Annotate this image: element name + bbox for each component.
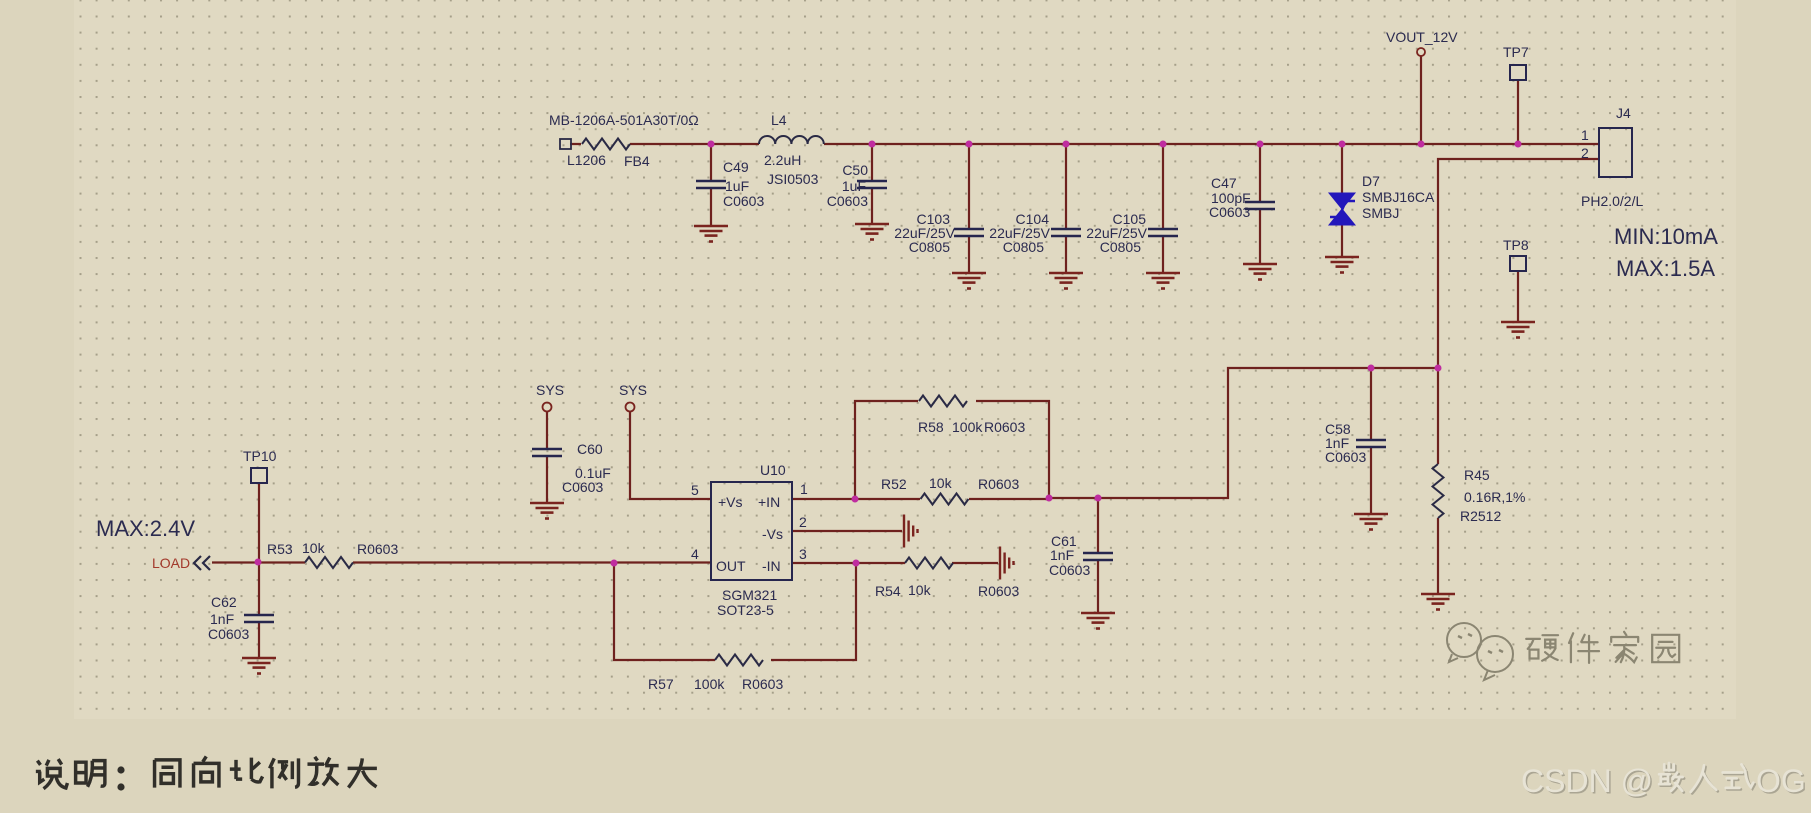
capacitor C49 bbox=[696, 159, 764, 209]
svg-text:C0805: C0805 bbox=[1100, 239, 1141, 255]
test point TP10 bbox=[243, 448, 277, 483]
svg-text:1: 1 bbox=[800, 481, 808, 497]
ground C58 bbox=[1354, 514, 1388, 530]
svg-text:5: 5 bbox=[691, 482, 699, 498]
svg-text:1nF: 1nF bbox=[210, 611, 234, 627]
resistor R53 bbox=[267, 540, 398, 568]
svg-text:MIN:10mA: MIN:10mA bbox=[1614, 224, 1718, 249]
wire top rail bbox=[570, 143, 1599, 145]
svg-text:U10: U10 bbox=[760, 462, 786, 478]
wire C47 leads bbox=[1259, 144, 1261, 264]
port LOAD bbox=[152, 555, 210, 571]
svg-text:1uF: 1uF bbox=[842, 178, 866, 194]
wire R57 loop bbox=[614, 563, 856, 660]
capacitor C50 bbox=[827, 162, 887, 209]
svg-text:PH2.0/2/L: PH2.0/2/L bbox=[1581, 193, 1643, 209]
wire C105 leads bbox=[1162, 144, 1164, 273]
svg-text:L4: L4 bbox=[771, 112, 787, 128]
wire feedback horizontal bbox=[1049, 368, 1438, 498]
wire J4 pin2 to R45 line bbox=[1438, 159, 1599, 368]
wire SYS1 to C60 bbox=[546, 411, 548, 503]
svg-text:C0603: C0603 bbox=[1049, 562, 1090, 578]
svg-text:R52: R52 bbox=[881, 476, 907, 492]
wire C61 leads bbox=[1097, 498, 1099, 613]
svg-text:FB4: FB4 bbox=[624, 153, 650, 169]
svg-text:C50: C50 bbox=[842, 162, 868, 178]
svg-text:OG: OG bbox=[1756, 763, 1806, 799]
svg-text:4: 4 bbox=[691, 546, 699, 562]
capacitor C47 bbox=[1209, 175, 1275, 220]
junction LOAD node bbox=[255, 559, 262, 566]
svg-text:R58: R58 bbox=[918, 419, 944, 435]
watermark logo bubbles bbox=[1447, 623, 1513, 680]
watermark text 硬件家园 bbox=[1526, 632, 1679, 663]
svg-text:-IN: -IN bbox=[762, 558, 781, 574]
svg-text:R0603: R0603 bbox=[984, 419, 1025, 435]
svg-text:C0603: C0603 bbox=[1325, 449, 1366, 465]
svg-text:C0603: C0603 bbox=[208, 626, 249, 642]
junction C61 node bbox=[1095, 495, 1102, 502]
svg-text:C0805: C0805 bbox=[909, 239, 950, 255]
inductor L4 bbox=[759, 112, 824, 187]
op-amp U10 bbox=[691, 462, 808, 618]
wire LOAD to OUT pin4 bbox=[212, 561, 711, 563]
svg-text:TP8: TP8 bbox=[1503, 237, 1529, 253]
svg-text:100k: 100k bbox=[952, 419, 983, 435]
capacitor C58 bbox=[1325, 421, 1386, 465]
wire C58 leads bbox=[1370, 368, 1372, 514]
svg-text:CSDN @: CSDN @ bbox=[1521, 763, 1653, 799]
svg-text:1nF: 1nF bbox=[1050, 547, 1074, 563]
svg-text:1uF: 1uF bbox=[725, 178, 749, 194]
svg-text:R57: R57 bbox=[648, 676, 674, 692]
svg-text:1: 1 bbox=[1581, 127, 1589, 143]
capacitor C104 bbox=[989, 211, 1081, 255]
wire C50 leads bbox=[871, 144, 873, 224]
ground C62 bbox=[242, 658, 276, 674]
svg-text:R0603: R0603 bbox=[742, 676, 783, 692]
wire R45 leads bbox=[1437, 368, 1439, 594]
junction R58 R52 bbox=[1046, 495, 1053, 502]
junction +IN R52 bbox=[852, 496, 859, 503]
svg-text:SOT23-5: SOT23-5 bbox=[717, 602, 774, 618]
caption colon bbox=[117, 766, 124, 790]
svg-text:LOAD: LOAD bbox=[152, 555, 190, 571]
svg-text:C0805: C0805 bbox=[1003, 239, 1044, 255]
svg-text:10k: 10k bbox=[302, 540, 326, 556]
ground C61 bbox=[1081, 613, 1115, 629]
svg-text:OUT: OUT bbox=[716, 558, 746, 574]
ground C50 bbox=[855, 224, 889, 240]
svg-text:R54: R54 bbox=[875, 583, 901, 599]
wire VOUT_12V bbox=[1420, 56, 1422, 144]
svg-text:3: 3 bbox=[799, 546, 807, 562]
wire R58 loop bbox=[855, 401, 1049, 499]
ground pin3 sideways bbox=[1000, 547, 1014, 580]
junction rail C104 bbox=[1063, 141, 1070, 148]
svg-text:TP10: TP10 bbox=[243, 448, 277, 464]
svg-text:SYS: SYS bbox=[536, 382, 564, 398]
wire TP10 bbox=[258, 483, 260, 562]
svg-text:VOUT_12V: VOUT_12V bbox=[1386, 29, 1458, 45]
svg-text:L1206: L1206 bbox=[567, 152, 606, 168]
svg-text:J4: J4 bbox=[1616, 105, 1631, 121]
junction rail C105 bbox=[1160, 141, 1167, 148]
svg-text:2.2uH: 2.2uH bbox=[764, 152, 801, 168]
ground R45 bbox=[1421, 594, 1455, 610]
wire pin3 R54 to ground bbox=[792, 562, 998, 564]
wire C49 leads bbox=[710, 144, 712, 226]
svg-text:SGM321: SGM321 bbox=[722, 587, 777, 603]
wire TP8 bbox=[1517, 271, 1519, 322]
junction rail D7 bbox=[1339, 141, 1346, 148]
svg-text:R53: R53 bbox=[267, 541, 293, 557]
svg-text:C0603: C0603 bbox=[562, 479, 603, 495]
junction OUT R57 bbox=[611, 560, 618, 567]
svg-text:-Vs: -Vs bbox=[762, 526, 783, 542]
resistor R57 bbox=[648, 655, 783, 693]
svg-text:SYS: SYS bbox=[619, 382, 647, 398]
svg-text:10k: 10k bbox=[929, 475, 953, 491]
capacitor C61 bbox=[1049, 533, 1113, 578]
svg-text:+Vs: +Vs bbox=[718, 494, 743, 510]
power port SYS 2 bbox=[619, 382, 647, 412]
capacitor C103 bbox=[894, 211, 984, 255]
junction rail C103 bbox=[966, 141, 973, 148]
note MIN MAX bbox=[1614, 224, 1718, 281]
svg-text:C0603: C0603 bbox=[1209, 204, 1250, 220]
connector J4 bbox=[1581, 105, 1643, 209]
svg-text:MB-1206A-501A30T/0Ω: MB-1206A-501A30T/0Ω bbox=[549, 112, 699, 128]
power port SYS 1 bbox=[536, 382, 564, 412]
svg-text:C60: C60 bbox=[577, 441, 603, 457]
svg-text:C47: C47 bbox=[1211, 175, 1237, 191]
svg-text:D7: D7 bbox=[1362, 173, 1380, 189]
svg-text:C0603: C0603 bbox=[723, 193, 764, 209]
test point TP7 bbox=[1503, 44, 1529, 80]
svg-text:SMBJ16CA: SMBJ16CA bbox=[1362, 189, 1435, 205]
resistor R54 bbox=[875, 558, 1019, 600]
ground C104 bbox=[1049, 273, 1083, 289]
TVS diode D7 bbox=[1329, 173, 1435, 225]
wire TP7 bbox=[1517, 80, 1519, 144]
ground pin2 sideways bbox=[904, 515, 918, 548]
junction R45 node bbox=[1435, 365, 1442, 372]
wire C62 leads bbox=[258, 562, 260, 658]
wire D7 leads bbox=[1341, 144, 1343, 257]
svg-text:R0603: R0603 bbox=[357, 541, 398, 557]
junction -IN R54 bbox=[853, 560, 860, 567]
svg-text:R45: R45 bbox=[1464, 467, 1490, 483]
wire C104 leads bbox=[1065, 144, 1067, 273]
junction rail C47 bbox=[1257, 141, 1264, 148]
ground C47 bbox=[1243, 264, 1277, 280]
capacitor C105 bbox=[1086, 211, 1178, 255]
watermark CSDN bbox=[1521, 763, 1807, 801]
ferrite bead FB4 bbox=[549, 112, 699, 169]
svg-text:2: 2 bbox=[799, 514, 807, 530]
junction C58 node bbox=[1368, 365, 1375, 372]
svg-text:10k: 10k bbox=[908, 582, 932, 598]
capacitor C62 bbox=[208, 594, 274, 642]
junction rail C50 bbox=[869, 141, 876, 148]
capacitor C60 bbox=[532, 441, 611, 495]
svg-text:+IN: +IN bbox=[758, 494, 780, 510]
svg-text:R2512: R2512 bbox=[1460, 508, 1501, 524]
svg-text:MAX:2.4V: MAX:2.4V bbox=[96, 516, 195, 541]
ground D7 bbox=[1325, 257, 1359, 273]
ground C60 bbox=[530, 503, 564, 519]
svg-text:TP7: TP7 bbox=[1503, 44, 1529, 60]
wire pin2 to ground bbox=[792, 530, 902, 532]
svg-text:2: 2 bbox=[1581, 145, 1589, 161]
resistor R52 bbox=[881, 475, 1019, 505]
caption line 说明：同向比例放大 bbox=[36, 756, 377, 788]
svg-text:0.16R,1%: 0.16R,1% bbox=[1464, 489, 1525, 505]
test point TP8 bbox=[1503, 237, 1529, 271]
svg-text:MAX:1.5A: MAX:1.5A bbox=[1616, 256, 1715, 281]
junction rail VOUT bbox=[1418, 141, 1425, 148]
svg-text:100k: 100k bbox=[694, 676, 725, 692]
svg-text:C49: C49 bbox=[723, 159, 749, 175]
svg-text:R0603: R0603 bbox=[978, 476, 1019, 492]
wire SYS2 to pin5 bbox=[630, 411, 711, 499]
ground TP8 bbox=[1501, 322, 1535, 338]
svg-text:C62: C62 bbox=[211, 594, 237, 610]
wire C103 leads bbox=[968, 144, 970, 273]
svg-text:R0603: R0603 bbox=[978, 583, 1019, 599]
svg-text:C0603: C0603 bbox=[827, 193, 868, 209]
wire pin1 to R52 bbox=[792, 498, 1049, 500]
junction rail TP7 bbox=[1515, 141, 1522, 148]
ground C49 bbox=[694, 226, 728, 242]
resistor R45 bbox=[1433, 464, 1526, 524]
svg-text:SMBJ: SMBJ bbox=[1362, 205, 1399, 221]
power port VOUT_12V bbox=[1386, 29, 1458, 56]
ground C103 bbox=[952, 273, 986, 289]
junction rail C49 bbox=[708, 141, 715, 148]
resistor R58 bbox=[918, 396, 1025, 436]
svg-text:JSI0503: JSI0503 bbox=[767, 171, 819, 187]
ground C105 bbox=[1146, 273, 1180, 289]
